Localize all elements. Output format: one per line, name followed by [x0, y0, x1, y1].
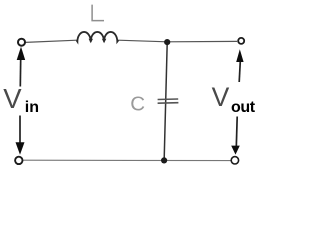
svg-text:out: out [231, 99, 256, 116]
svg-text:V: V [3, 83, 22, 114]
svg-text:V: V [212, 82, 230, 112]
svg-text:C: C [130, 93, 145, 116]
svg-text:in: in [25, 99, 39, 116]
